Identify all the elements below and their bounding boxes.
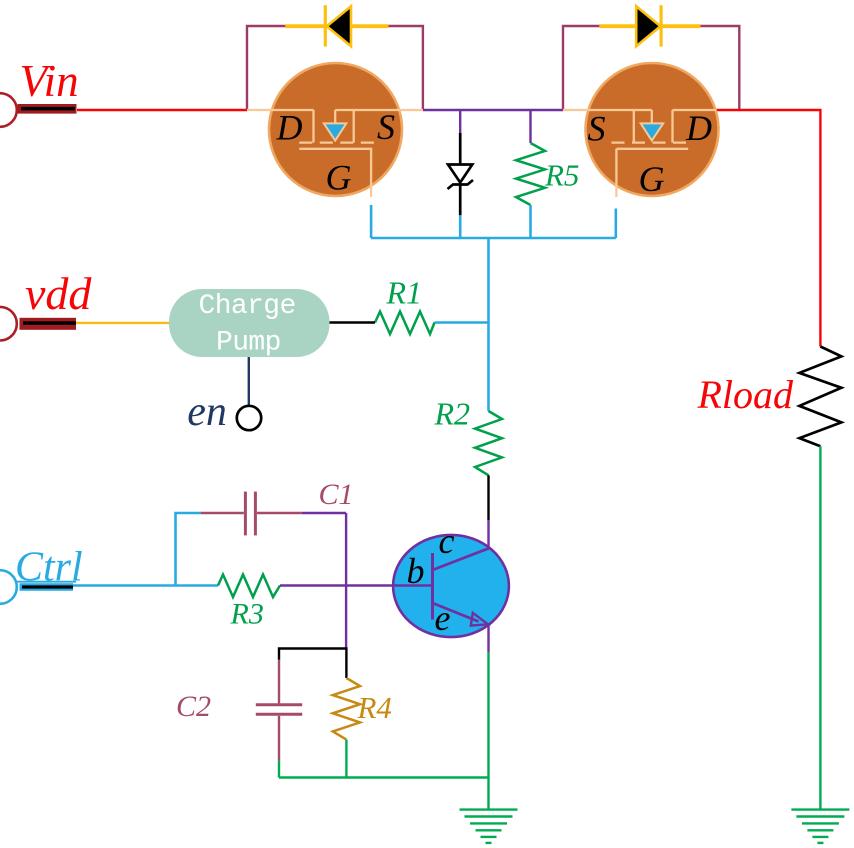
svg-text:Ctrl: Ctrl <box>15 545 83 591</box>
svg-text:Charge: Charge <box>199 291 296 322</box>
svg-text:C2: C2 <box>176 690 211 723</box>
transistor M2 PMOS <box>563 63 719 199</box>
capacitor C2 <box>256 660 302 761</box>
resistor R3 <box>218 575 280 598</box>
svg-text:S: S <box>377 107 395 147</box>
wire ground bus green <box>279 776 489 778</box>
svg-text:R4: R4 <box>357 690 392 725</box>
zener diode Z1 <box>448 133 474 215</box>
svg-text:D: D <box>685 108 712 148</box>
svg-text:G: G <box>326 158 352 198</box>
wire emitter violet <box>487 624 489 652</box>
svg-text:Rload: Rload <box>697 372 795 417</box>
diode D1 <box>285 5 388 46</box>
wire charge pump to R1 black <box>330 321 376 323</box>
wire Ctrl cyan <box>73 584 218 587</box>
wire Rload green <box>819 446 821 809</box>
diode D2 <box>599 5 700 46</box>
svg-text:vdd: vdd <box>25 268 92 319</box>
svg-text:C1: C1 <box>319 478 354 511</box>
resistor R2 <box>475 411 502 475</box>
wire en navy <box>248 357 250 406</box>
svg-text:e: e <box>435 598 451 638</box>
resistor R4 <box>333 678 360 740</box>
capacitor C1 <box>201 492 302 536</box>
svg-text:c: c <box>439 521 455 561</box>
wire base violet <box>280 584 433 586</box>
svg-text:R3: R3 <box>230 598 264 631</box>
wire C1 to node violet <box>302 513 346 648</box>
svg-text:G: G <box>639 159 665 199</box>
svg-text:R2: R2 <box>434 396 471 432</box>
transistor M1 PMOS <box>247 63 423 198</box>
node Vin terminal <box>0 56 79 127</box>
wire C2 R4 link black <box>279 649 346 679</box>
wire C1 branch cyan <box>176 513 202 586</box>
wire C2 tail green <box>278 761 280 778</box>
wire red right <box>716 110 820 347</box>
wire stem blue <box>487 238 490 411</box>
wire zener tail blue <box>459 215 462 238</box>
wire R5 tail blue <box>529 205 532 238</box>
wire diode D1 loop purple <box>247 26 423 110</box>
wire vdd orange <box>76 322 169 324</box>
svg-text:Vin: Vin <box>20 56 79 106</box>
resistor Rload <box>799 347 841 447</box>
wire collector violet <box>487 520 489 548</box>
svg-text:S: S <box>588 109 606 149</box>
charge pump U1 <box>169 289 330 359</box>
wire below R2 black <box>487 475 489 520</box>
svg-text:D: D <box>276 108 303 148</box>
svg-text:R5: R5 <box>544 158 579 193</box>
node Ctrl terminal <box>0 545 83 604</box>
wire emitter green <box>487 652 489 810</box>
svg-text:R1: R1 <box>386 275 423 311</box>
resistor R1 <box>375 312 435 335</box>
wire gate M1 blue <box>370 205 373 238</box>
node vdd terminal <box>0 268 92 341</box>
transistor Q1 NPN <box>393 521 509 638</box>
wire mid violet <box>423 109 563 111</box>
ground GND2 <box>791 810 849 843</box>
wire Vin red <box>77 109 247 111</box>
svg-text:Pump: Pump <box>216 328 281 359</box>
ground GND1 <box>460 810 518 843</box>
node en terminal <box>187 389 261 435</box>
wire R1 to stem blue <box>435 321 489 324</box>
wire gate bus blue <box>371 237 616 240</box>
wire R4 tail green <box>345 740 347 778</box>
svg-text:en: en <box>187 389 227 435</box>
wire R5 stub violet <box>529 110 531 143</box>
wire diode D2 loop purple <box>563 26 739 110</box>
wire gate M2 blue <box>614 209 617 239</box>
resistor R5 <box>516 143 545 205</box>
wire zener stub violet <box>459 110 461 133</box>
